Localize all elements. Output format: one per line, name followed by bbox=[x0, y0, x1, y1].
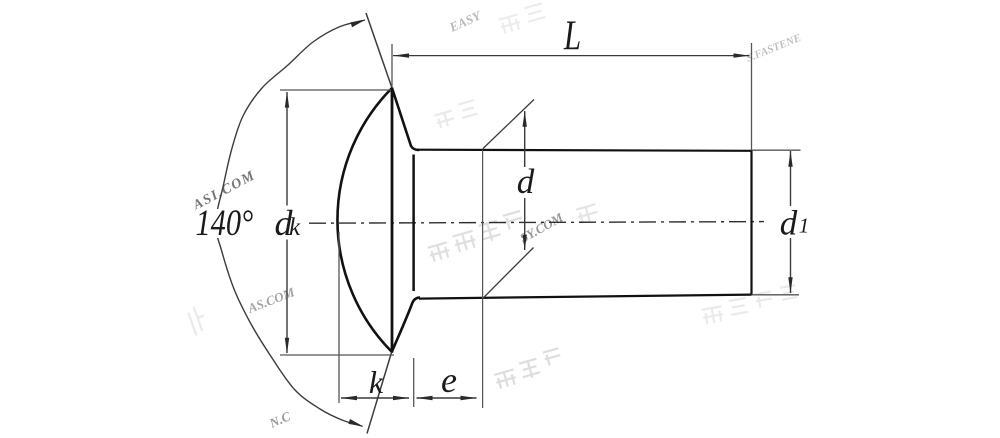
d oblique extension bottom bbox=[483, 248, 534, 299]
shank top line bbox=[417, 150, 752, 151]
big 140-degree dimension arc bbox=[215, 20, 365, 426]
L arrow left bbox=[393, 53, 409, 57]
svg-text:L: L bbox=[563, 12, 581, 59]
svg-text:e: e bbox=[441, 360, 457, 400]
d arrow up bbox=[523, 111, 527, 127]
d1 extension line bottom bbox=[752, 294, 800, 296]
svg-text:N.C: N.C bbox=[266, 408, 293, 431]
k arrow left bbox=[341, 396, 357, 400]
watermark CJK-like blobs bbox=[187, 3, 799, 389]
label L bbox=[563, 12, 581, 59]
dk arrow down bbox=[285, 338, 289, 354]
svg-text:k: k bbox=[289, 214, 301, 241]
svg-text:EASY: EASY bbox=[446, 7, 484, 35]
d1 arrow down bbox=[788, 277, 792, 293]
e arrow right bbox=[461, 396, 477, 400]
arc end arrow bottom bbox=[348, 419, 363, 427]
d1 extension line top bbox=[752, 149, 801, 151]
k arrow right bbox=[393, 396, 409, 400]
head max-diameter vertical line bbox=[391, 88, 394, 353]
e dimension line bbox=[417, 397, 477, 399]
dk dimension line bbox=[286, 92, 288, 353]
head dome arc (bulge) bbox=[337, 88, 392, 352]
d1 arrow up bbox=[788, 151, 792, 167]
head cone surface top bbox=[392, 88, 419, 150]
L arrow right bbox=[734, 53, 750, 57]
arc end arrow top bbox=[351, 20, 366, 28]
head cone surface bottom bbox=[392, 297, 421, 352]
watermark text fragments bbox=[190, 7, 803, 431]
angle leg line top (cone extension) bbox=[366, 13, 392, 88]
label 140deg bbox=[196, 203, 254, 243]
svg-text:1: 1 bbox=[799, 214, 810, 238]
k dimension line bbox=[341, 397, 409, 399]
e arrow left bbox=[417, 396, 433, 400]
d arrow down bbox=[523, 235, 527, 251]
e extension line right bbox=[482, 150, 484, 408]
L extension line right bbox=[751, 43, 753, 150]
dk arrow up bbox=[285, 92, 289, 108]
d dimension line bbox=[524, 111, 526, 250]
svg-text:k: k bbox=[369, 364, 384, 400]
svg-text:d: d bbox=[780, 204, 798, 243]
shank right end edge bbox=[750, 150, 752, 295]
L dimension line bbox=[393, 55, 750, 57]
k extension line left bbox=[338, 232, 340, 403]
svg-text:S.FASTENE: S.FASTENE bbox=[745, 32, 803, 65]
centerline (dash-dot axis) bbox=[309, 222, 764, 224]
svg-text:140°: 140° bbox=[196, 203, 254, 243]
angle leg line bottom (cone extension) bbox=[367, 353, 392, 434]
dk extension line bottom bbox=[280, 354, 394, 356]
dk extension line top bbox=[280, 89, 391, 91]
k extension line right / e extension line left bbox=[413, 358, 415, 407]
svg-text:d: d bbox=[517, 162, 535, 201]
L extension line left bbox=[391, 44, 393, 87]
d1 dimension line bbox=[790, 151, 792, 293]
label 140deg background gap over arc bbox=[196, 209, 250, 238]
svg-text:AS.COM: AS.COM bbox=[245, 284, 297, 316]
shank bottom line bbox=[419, 295, 752, 299]
d oblique extension top bbox=[483, 100, 534, 149]
head-shank junction edge line bbox=[412, 155, 415, 292]
